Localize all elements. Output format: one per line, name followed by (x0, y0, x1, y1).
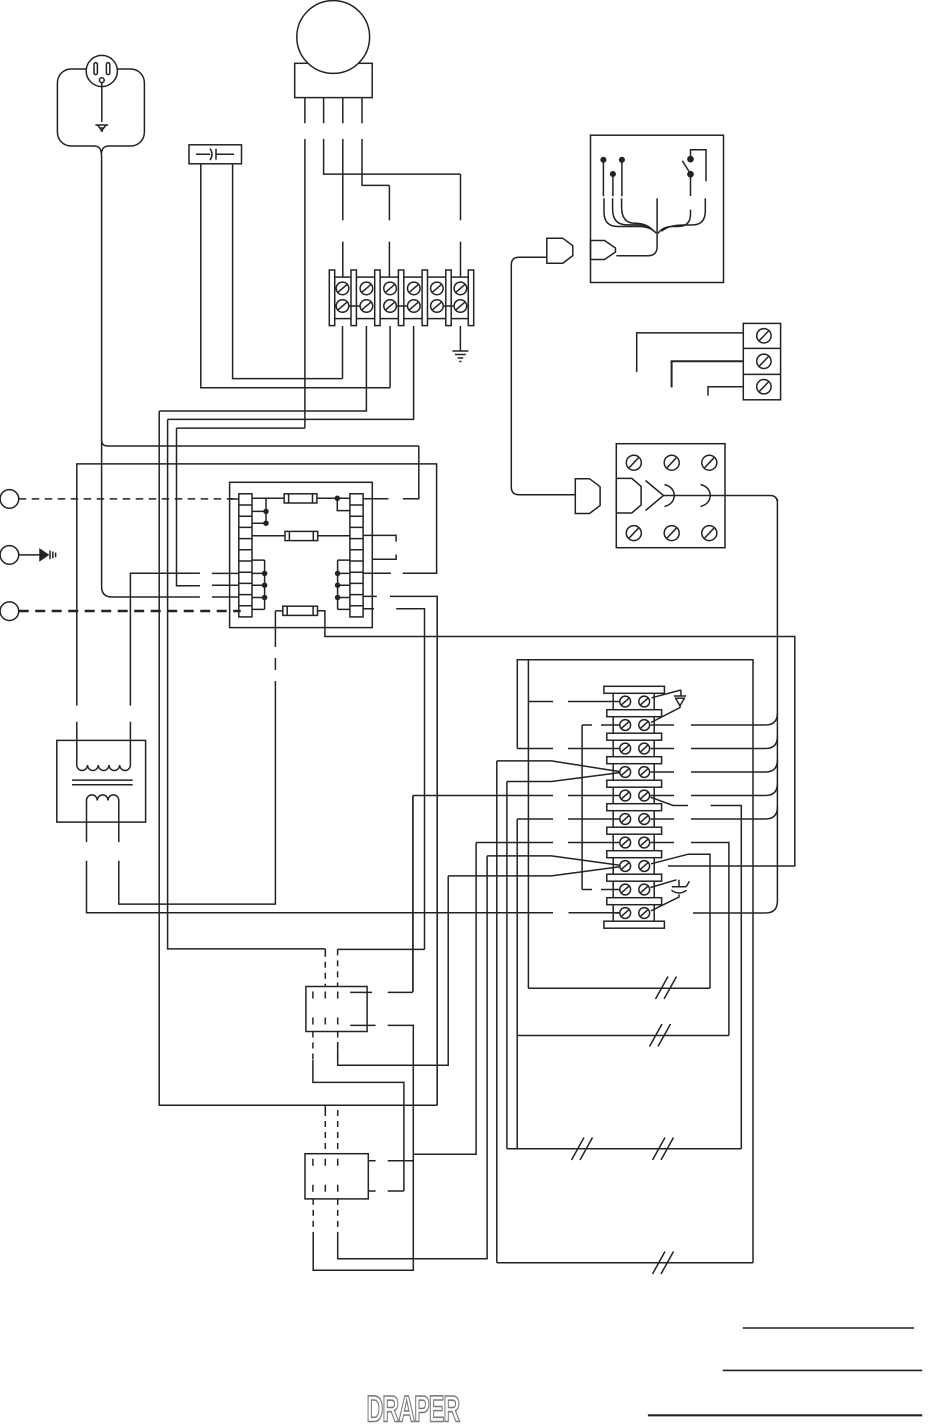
power plug P1 face circle (86, 55, 117, 86)
K2 coil pin1 wire (313, 1060, 404, 1191)
row6 left wire and Sb riser (517, 819, 620, 1036)
loop A slash pair 1 (572, 1138, 593, 1161)
motor lead 3 (342, 98, 344, 278)
plug cord wire (102, 155, 419, 446)
K3 top terminal wire (368, 1160, 413, 1162)
wire transformer primary right to PCB (130, 573, 200, 740)
resistor R2 (285, 531, 318, 540)
motor lead 2 (324, 98, 461, 175)
vertical tie left bottom (252, 560, 265, 609)
T1 primary winding (77, 740, 131, 771)
motor M1 circle (297, 1, 370, 74)
wire plug branch to right strip top (363, 446, 419, 499)
plug cord branch down (102, 440, 239, 597)
capacitor lead right (233, 164, 343, 379)
wire right-strip 596 drop to K3 (436, 596, 438, 1105)
terminal block TB2 (3 pole) (743, 323, 780, 399)
wire strip to R2 (252, 535, 285, 537)
right strip pin to relay drop (363, 596, 437, 1105)
K3 internal contact dashes (313, 1159, 338, 1196)
TB1 barrier bars (329, 270, 473, 326)
T1 core lines (72, 780, 133, 785)
right strip stub y554 (372, 555, 396, 560)
node circle B (0, 546, 19, 565)
TB3 barriers (604, 686, 665, 928)
bus branch row2 (651, 713, 778, 725)
vertical tie right bottom (338, 560, 350, 609)
TB1 screws bottom row (336, 300, 467, 313)
wire B to shield symbol (19, 554, 40, 556)
PCB left header strip (239, 494, 252, 617)
transformer T1 box (57, 740, 146, 822)
wire motor1 drop to PCB pin b (177, 428, 200, 586)
bundle drop to connector (616, 198, 657, 256)
node circle A (0, 490, 19, 509)
capacitor lead left (201, 164, 390, 388)
row8 lower-left diagonal / relay K2 coil riser (338, 867, 620, 1065)
motor M1 body rect (295, 63, 373, 97)
ground symbol inside plug (95, 125, 108, 131)
contactor K1 box (616, 444, 725, 548)
wire J1 to J2 long link (511, 257, 575, 495)
switch Sb line row6 to row7 (517, 1035, 729, 1037)
resistor R3 (283, 606, 318, 615)
connector J1 female (547, 238, 573, 263)
K1 screws top (626, 455, 641, 470)
bus branch row5 gap (651, 784, 778, 796)
K2 bottom terminal wire to chain (313, 1025, 413, 1270)
switch Sa line row1 to row8 (528, 987, 710, 989)
resistor R1 (284, 494, 317, 503)
row7 left wire riser (413, 843, 620, 1155)
K1 harness Y branch (646, 481, 664, 511)
right strip pin y608 drop (363, 609, 425, 950)
PCB right header strip (350, 494, 363, 617)
TB1 screws top row (336, 282, 467, 295)
wire xfmr primary left riser (77, 464, 437, 740)
bracket row2 to row9 (582, 725, 620, 890)
wire col4 bottom west (168, 326, 414, 419)
K2 internal contact dashes (313, 992, 338, 1029)
wire R2 to right strip (318, 535, 350, 537)
TB1 bottom jumpers (349, 305, 454, 307)
connector J1 male (in box) (591, 241, 616, 260)
wire col2 bottom west (159, 326, 366, 411)
switch Sb slashes (650, 1024, 671, 1047)
dashed wire from C to PCB (19, 610, 241, 612)
TB2 lead 1 (637, 333, 744, 372)
K3 coil pin dashes below (313, 1199, 338, 1236)
motor lead 4 (362, 98, 389, 186)
row5 diagonal to drop (651, 797, 742, 1149)
motor lead 1 (304, 98, 306, 429)
wire strip to R1 (252, 497, 284, 499)
TB2 lead 2 (672, 361, 744, 387)
T1 secondary winding (87, 795, 119, 801)
diode D1 row1 to row2 (651, 690, 686, 723)
wire motor1 west (177, 427, 305, 429)
loop B line row4 to Y660 (497, 1262, 753, 1264)
signature line 3 (648, 1414, 922, 1416)
power plug P1 outline (57, 69, 144, 155)
plug prong slot right (106, 63, 109, 75)
plug prong slot left (94, 63, 97, 75)
K1 screws bottom (626, 526, 641, 541)
T1 secondary leads (87, 801, 554, 913)
Sb riser continuation to loopA (516, 1036, 518, 1150)
TB3 screws rows 1-10 (620, 696, 650, 918)
bus end into row10 (693, 901, 777, 913)
loop A line row4 to row5 (507, 1148, 741, 1150)
relay K3 box (305, 1154, 368, 1199)
connector J2 male (in contactor) (616, 478, 641, 513)
shield ground symbol at B (40, 550, 56, 561)
switch contact pin C (620, 158, 625, 163)
wire col3 bottom to cap (389, 326, 391, 388)
R3 left lead drop (275, 610, 282, 612)
row7 wire to drop (651, 843, 729, 1036)
bus branch row3 (651, 737, 778, 749)
capacitor C1 symbol (196, 149, 234, 161)
harness bus from contactor (776, 503, 778, 901)
plug ground lead wire (101, 83, 103, 122)
wire net col4 to K2 left contact (168, 419, 326, 956)
wire net col2 to K3 left contact (159, 411, 437, 1112)
connector J2 female (575, 479, 600, 514)
node circle C (0, 602, 19, 621)
DRAPER logo (367, 1388, 460, 1425)
harness curves inside SW1 (604, 198, 656, 233)
dashed wire from A to PCB (19, 498, 239, 500)
switch Sa slashes (656, 977, 677, 1000)
K1 harness output wire (664, 496, 778, 503)
toggle switch S1 (688, 157, 693, 162)
switch contact pin A (601, 158, 606, 163)
ground symbol col6 (452, 326, 468, 362)
row10 left entry (615, 912, 620, 914)
capacitor C1 box (189, 145, 242, 164)
row8 upper-left diagonal / relay K3 coil riser (338, 856, 620, 1259)
K1 harness hop 2 (701, 485, 711, 507)
switch contact pin B (611, 172, 616, 177)
row8 diagonal up to drop (651, 854, 710, 988)
wire secondary to row10 long (569, 912, 620, 914)
wire motor4 to col3 (388, 185, 390, 277)
K2 contact dashes above (324, 951, 326, 987)
wire R1 to right strip (317, 498, 350, 510)
relay terminal strip TB3 body (613, 690, 654, 925)
svg-text:DRAPER: DRAPER (367, 1388, 460, 1425)
PCB board outline (230, 482, 373, 627)
row4 lower diagonal wire / loopA left riser (507, 773, 620, 1149)
loop B slashes (653, 1252, 674, 1275)
K3 contact dashes above (325, 1110, 337, 1154)
right strip stub y535 (363, 535, 396, 541)
bus branch row4 (651, 760, 778, 772)
loop A slash pair 2 (653, 1138, 674, 1161)
wire motor2 to col6 (460, 174, 462, 277)
R3 right lead W635 (318, 611, 795, 866)
plug ground pin hole (99, 78, 104, 83)
vertical tie left top (252, 498, 266, 523)
signature line 2 (723, 1369, 923, 1371)
K2 top terminal wire (350, 796, 413, 993)
row4 upper diagonal wire / loopB left riser (497, 761, 620, 1263)
row1 left wire and Sa riser (528, 660, 619, 988)
relay K2 box (306, 987, 367, 1032)
row5 left wire to relay K2 riser (413, 796, 620, 992)
K2 coil pin dashes below (312, 1032, 314, 1063)
wire strip pin y608 link to K2 right contact (338, 948, 425, 950)
wire Y660 row3 to loopB riser (517, 660, 753, 1263)
switch box SW1 (591, 135, 724, 282)
row3 left entry (517, 748, 620, 750)
PCB left entry stubs (212, 499, 239, 585)
terminal block TB1 body band (335, 277, 469, 319)
suppressor C2 row9 to row10 (651, 880, 690, 911)
TB2 lead 3 (708, 387, 743, 396)
signature line 1 (743, 1327, 914, 1329)
TB2 screws (757, 329, 771, 343)
K1 harness hop 1 (665, 485, 675, 507)
bus branch row6 (651, 807, 778, 819)
wire col1 bottom to cap (342, 326, 344, 379)
